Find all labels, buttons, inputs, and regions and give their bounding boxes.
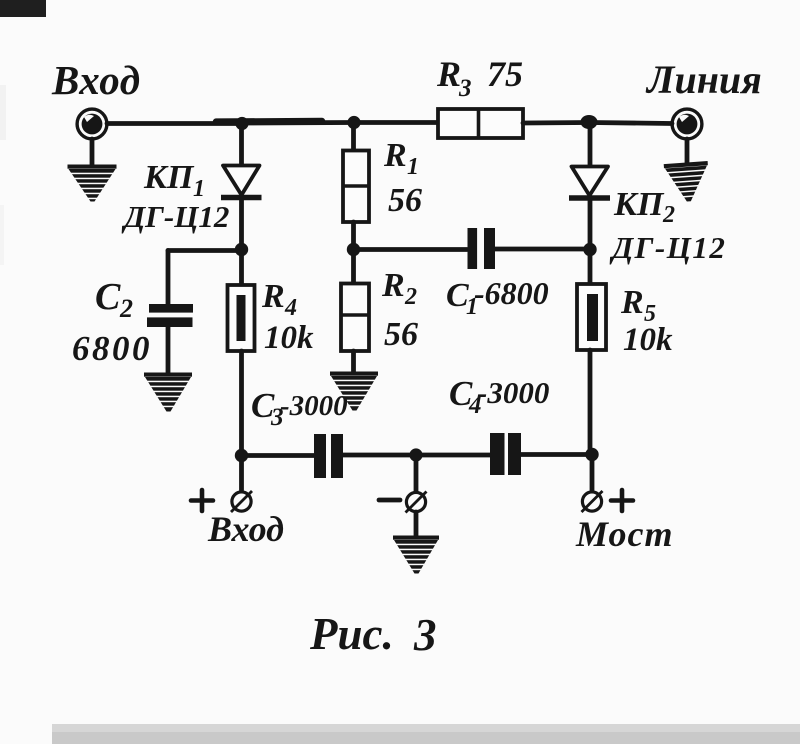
svg-text:ДГ-Ц12: ДГ-Ц12	[609, 230, 726, 265]
ground (under R2)	[330, 372, 378, 411]
node F	[583, 243, 596, 256]
ground (output)	[664, 161, 711, 203]
wire stem input ground	[90, 139, 95, 166]
ground (input)	[68, 165, 117, 202]
wire Ø to bottom ground	[414, 512, 419, 537]
node A	[235, 117, 248, 130]
wire node C down to diode KP2	[588, 122, 593, 167]
resistor R2	[341, 284, 369, 352]
resistor R4	[228, 285, 255, 351]
wire node E down to R2	[351, 250, 356, 284]
terminal output	[672, 109, 702, 139]
svg-text:10k: 10k	[264, 320, 314, 356]
svg-text:Вход: Вход	[207, 509, 284, 549]
terminal Ø (bottom right)	[582, 491, 603, 512]
svg-text:Вход: Вход	[51, 57, 141, 103]
capacitor C2	[147, 304, 193, 327]
svg-text:КП: КП	[613, 186, 665, 223]
terminal Ø (bottom left)	[231, 491, 252, 512]
svg-text:6800: 6800	[72, 329, 152, 368]
wire node C to output terminal	[590, 123, 672, 124]
label − (bottom middle)	[379, 498, 400, 503]
wire input to node A	[107, 121, 242, 126]
resistor R5	[577, 284, 606, 350]
wire R4 to bottom node G	[239, 351, 244, 456]
wire node A down to diode KP1	[239, 123, 244, 166]
scan smudge bottom bar	[52, 724, 800, 744]
wire node A to node B	[242, 120, 354, 125]
svg-text:R: R	[620, 284, 644, 321]
wire node G to C3	[242, 453, 315, 458]
svg-text:Мост: Мост	[575, 514, 673, 554]
svg-text:Рис.: Рис.	[309, 609, 394, 659]
terminal input	[77, 109, 107, 139]
svg-text:56: 56	[388, 182, 422, 219]
resistor R1	[343, 151, 369, 223]
scan mark top-left corner	[0, 0, 46, 17]
wire node H to middle terminal Ø	[414, 455, 419, 491]
node D	[235, 243, 248, 256]
capacitor C3	[314, 434, 343, 478]
wire node D to R4	[239, 250, 244, 286]
wire node D left to C2 branch	[168, 248, 242, 253]
terminal Ø (bottom middle)	[406, 492, 427, 513]
node G (bottom left)	[235, 449, 248, 462]
svg-text:R: R	[383, 137, 407, 174]
wire R3 to node C	[523, 120, 590, 125]
wire diode KP2 to node F	[588, 197, 593, 250]
svg-text:2: 2	[404, 284, 417, 310]
svg-text:R: R	[436, 54, 461, 94]
wire C3 to C4	[343, 453, 490, 458]
wire diode KP1 to node D	[239, 197, 244, 250]
svg-text:С: С	[95, 276, 121, 318]
svg-text:2: 2	[119, 294, 133, 323]
wire stem output ground	[685, 139, 690, 164]
node B	[347, 116, 360, 129]
svg-text:-3000: -3000	[477, 375, 549, 410]
wire node B down to R1	[351, 122, 356, 151]
node E	[347, 243, 360, 256]
wire C4 to node I	[521, 452, 592, 457]
capacitor C4	[490, 433, 521, 475]
label + (bottom right)	[611, 490, 633, 511]
diode KP1 (КП1 ДГ-Ц12)	[221, 166, 262, 198]
wire R2 to ground	[351, 351, 356, 373]
capacitor C1	[468, 228, 496, 269]
ground (bottom middle)	[393, 536, 439, 574]
faint left-edge smudges	[0, 85, 6, 140]
wire node B to R3	[354, 120, 440, 125]
wire C2 to ground	[166, 327, 171, 374]
resistor R3	[438, 109, 523, 138]
svg-text:56: 56	[384, 316, 418, 353]
wire node I to bridge terminal Ø	[590, 455, 595, 490]
ground (under C2)	[144, 373, 192, 412]
svg-text:-3000: -3000	[280, 390, 348, 422]
svg-text:75: 75	[487, 54, 523, 94]
svg-text:3: 3	[413, 610, 437, 660]
wire R1 to node E	[351, 222, 356, 250]
svg-text:КП: КП	[143, 159, 195, 196]
svg-text:4: 4	[284, 295, 297, 321]
svg-text:Линия: Линия	[645, 57, 762, 102]
wire C1 to node F	[495, 247, 590, 252]
svg-text:2: 2	[662, 202, 675, 228]
node H (bottom middle)	[409, 448, 422, 461]
svg-text:1: 1	[407, 154, 419, 180]
svg-text:R: R	[381, 267, 405, 304]
label + (bottom left)	[191, 490, 213, 511]
svg-text:10k: 10k	[623, 322, 673, 358]
wire overlap stroke artifact	[216, 118, 322, 125]
wire R5 to node I	[588, 350, 593, 455]
wire node F to R5	[588, 250, 593, 285]
wire node E to C1	[354, 247, 468, 252]
wire down to C2	[166, 251, 171, 306]
node C	[583, 116, 596, 129]
svg-text:3: 3	[458, 75, 472, 102]
svg-text:R: R	[261, 278, 285, 315]
svg-text:ДГ-Ц12: ДГ-Ц12	[121, 199, 229, 234]
wire node G to input terminal Ø	[239, 455, 244, 490]
node I (bottom right)	[585, 448, 598, 461]
svg-text:-6800: -6800	[474, 275, 549, 311]
diode KP2 (КП2 ДГ-Ц12)	[569, 167, 610, 199]
ink blob at node C	[581, 115, 598, 129]
